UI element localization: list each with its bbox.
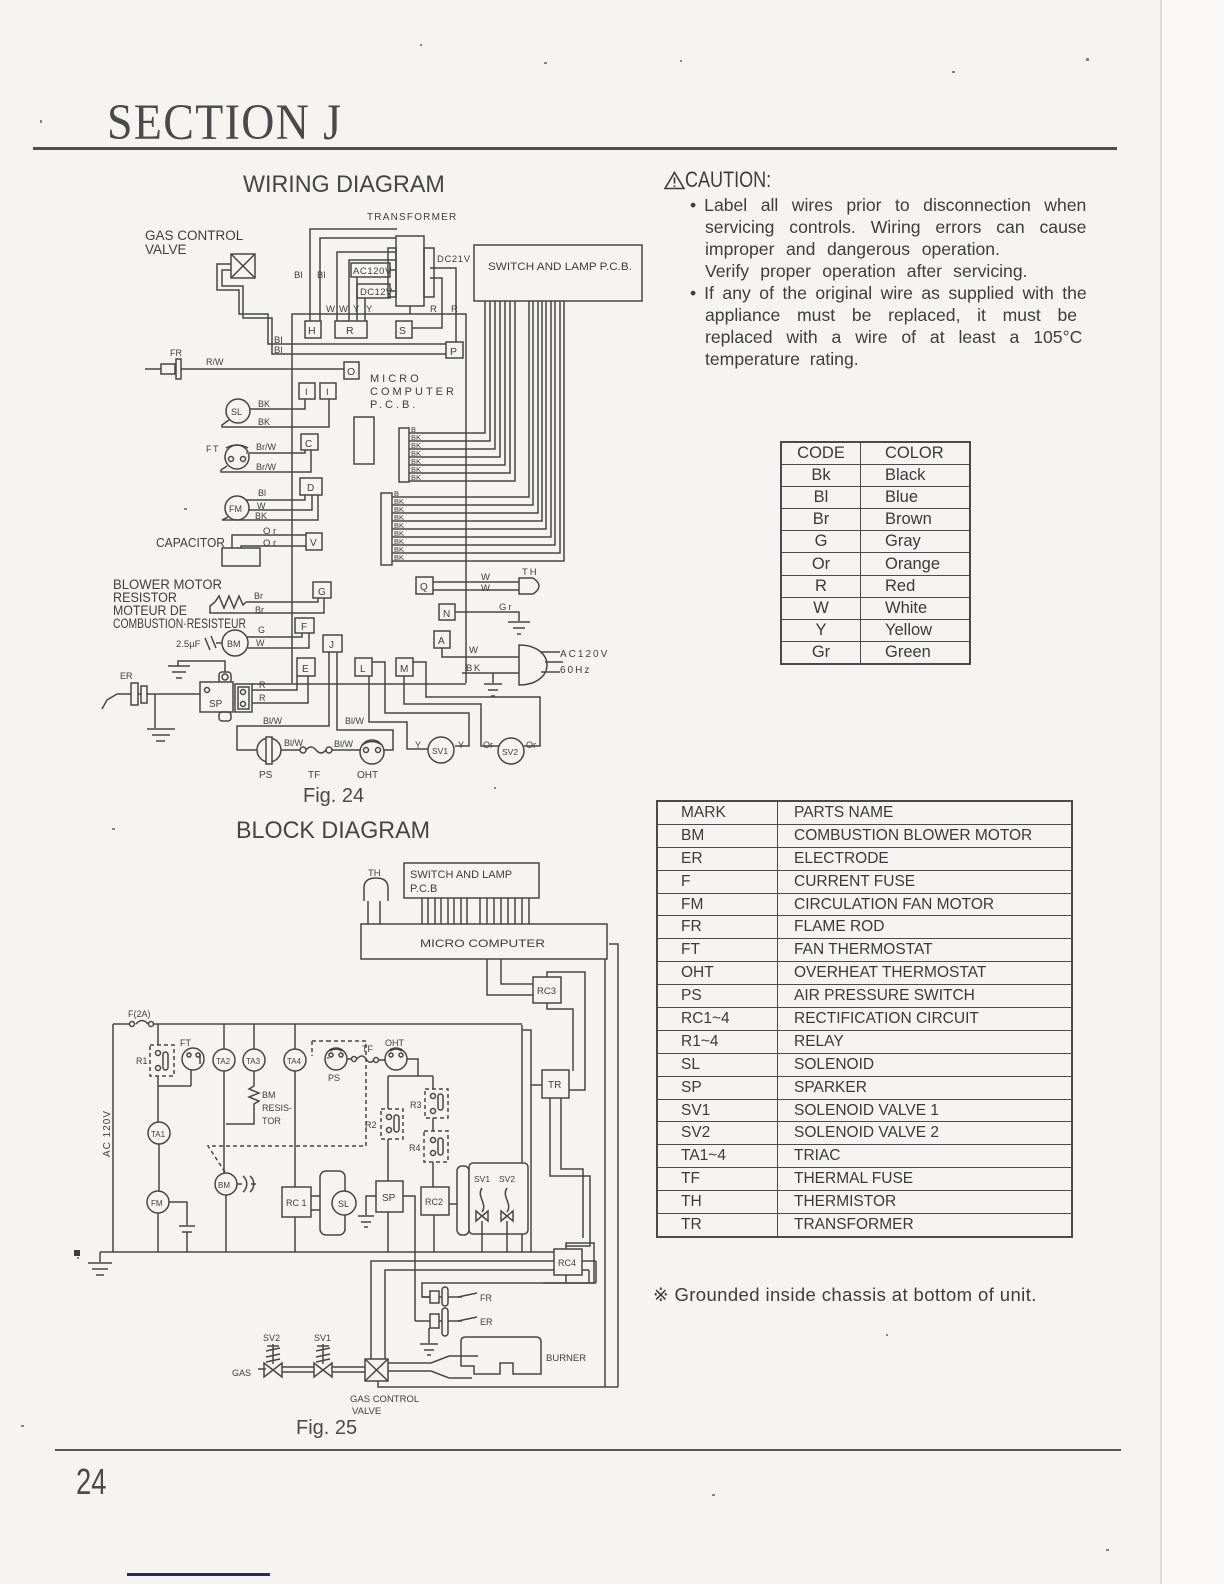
relay R1 xyxy=(136,1024,174,1076)
rectification circuit RC4 xyxy=(554,1249,582,1275)
gas control valve xyxy=(350,1359,419,1417)
overheat thermostat OHT xyxy=(385,1038,407,1070)
connector O xyxy=(344,362,359,379)
svg-text:GAS CONTROL: GAS CONTROL xyxy=(350,1394,419,1405)
wire SV stubs xyxy=(482,1234,507,1252)
svg-text:AC 120V: AC 120V xyxy=(102,1110,113,1157)
ground Gr xyxy=(508,622,530,634)
svg-text:R3: R3 xyxy=(410,1100,422,1110)
svg-text:TA3: TA3 xyxy=(246,1057,261,1066)
wire Y 2 xyxy=(364,298,366,321)
labels Bl W BK xyxy=(255,488,267,521)
wire RC4 bottom xyxy=(543,1275,596,1283)
rail right outer xyxy=(609,944,618,1387)
blower motor resistor label xyxy=(113,577,246,631)
triac TA3 xyxy=(243,1024,265,1071)
svg-text:SV2: SV2 xyxy=(499,1174,515,1184)
wire L to SV1 left xyxy=(369,676,428,749)
wire bundle BK 1 xyxy=(409,301,515,481)
wire Bl primary 1 xyxy=(310,229,397,321)
wire TR to RC4 inner xyxy=(561,1098,583,1238)
fan motor FM xyxy=(225,496,249,520)
svg-text:R2: R2 xyxy=(365,1120,377,1130)
thermal fuse TF xyxy=(281,747,360,781)
wires Q to TH xyxy=(433,582,519,590)
wire Bl pair from valve to P 2 xyxy=(222,270,446,354)
svg-text:R4: R4 xyxy=(409,1143,421,1153)
connector bar BK 1 xyxy=(399,428,409,482)
svg-text:TA2: TA2 xyxy=(216,1057,231,1066)
thermistor TH xyxy=(519,567,539,594)
connector J xyxy=(323,635,342,652)
relay R3 xyxy=(410,1089,448,1118)
fan thermostat FT xyxy=(206,444,249,469)
wire bundle BK 2 xyxy=(392,301,564,561)
relay R4 xyxy=(409,1131,448,1162)
wire SL BK bottom xyxy=(222,399,329,427)
svg-text:FM: FM xyxy=(151,1199,163,1208)
svg-text:BURNER: BURNER xyxy=(546,1353,586,1364)
air pressure switch PS xyxy=(257,737,281,781)
gas pipe xyxy=(232,1367,365,1378)
connector V xyxy=(306,533,322,550)
connector at SP xyxy=(235,684,252,712)
wire RC3 bottom to TR xyxy=(547,1003,573,1071)
connector P xyxy=(446,342,463,358)
labels BrW xyxy=(256,442,277,472)
labels W W Y Y xyxy=(326,304,373,315)
connector D xyxy=(300,478,322,495)
wire BM W xyxy=(248,633,309,648)
sparker SP xyxy=(376,1181,403,1252)
wire R to P xyxy=(430,268,456,342)
resistor blower zigzag xyxy=(215,596,246,608)
wire Bl pair from valve to P 1 xyxy=(217,264,446,344)
wire Or 2 xyxy=(241,546,306,548)
rail right inner xyxy=(604,959,606,1387)
wire FT BrW top xyxy=(249,450,305,453)
svg-text:PS: PS xyxy=(328,1073,340,1083)
svg-text:RC 1: RC 1 xyxy=(286,1198,307,1208)
gas control valve label xyxy=(145,228,244,257)
connector S xyxy=(396,321,412,338)
wire rail left pair 1 xyxy=(521,1025,523,1252)
flame rod FR xyxy=(422,1287,492,1306)
fan thermostat FT xyxy=(180,1038,204,1086)
labels Br Br xyxy=(254,591,264,615)
wire R to E corner xyxy=(252,676,297,690)
labels BlW xyxy=(263,716,365,749)
wire to R2 SP xyxy=(387,1076,389,1181)
labels BK BK xyxy=(258,399,270,427)
wire SP to ER xyxy=(403,1196,415,1321)
wire Bl primary 2 xyxy=(320,238,396,321)
dashed link to BM xyxy=(208,1041,366,1172)
wire micro to RC3 2 xyxy=(501,959,533,984)
sparker SP xyxy=(200,672,233,721)
wire BM G xyxy=(247,633,302,637)
bus line 3 xyxy=(385,1270,589,1359)
labels BK bundle 2 xyxy=(394,489,404,562)
connector C xyxy=(301,434,318,450)
wire N Gr xyxy=(455,612,519,621)
wire M to SV2 right xyxy=(413,662,540,746)
wire Br bottom xyxy=(210,598,324,613)
blower motor BM xyxy=(215,1173,237,1252)
left rail AC120V xyxy=(102,1024,113,1252)
triac TA4 xyxy=(284,1024,306,1187)
overheat thermostat OHT xyxy=(357,740,384,781)
labels R R xyxy=(430,304,458,315)
connector E xyxy=(297,658,315,676)
solenoid valve SV1 gas xyxy=(314,1333,332,1377)
wire bundle PCB to micro xyxy=(422,898,529,924)
bottom rail xyxy=(100,1251,554,1253)
svg-text:TR: TR xyxy=(548,1080,561,1091)
label DC12V xyxy=(357,284,396,298)
fuse FR xyxy=(145,348,344,379)
rectification circuit RC2 xyxy=(421,1187,457,1252)
label AC120V xyxy=(351,263,396,277)
wire R to E stub xyxy=(252,676,308,703)
ground ER xyxy=(147,694,175,741)
connector F xyxy=(295,618,314,633)
wire Y 1 xyxy=(356,277,358,321)
wire TR left xyxy=(531,1084,542,1086)
svg-text:SWITCH AND LAMP: SWITCH AND LAMP xyxy=(410,869,512,881)
wire FM Bl xyxy=(246,495,305,500)
wire RC4 loop to FR xyxy=(422,1243,594,1297)
blower motor BM xyxy=(222,630,248,656)
wire W 1 xyxy=(337,252,396,321)
svg-text:R1: R1 xyxy=(136,1056,148,1066)
solenoid SL assembly xyxy=(311,1171,356,1235)
wire Br top xyxy=(246,598,318,602)
switch and lamp PCB xyxy=(404,863,539,898)
wire OHT branch xyxy=(388,1059,433,1076)
wire R1 FT join xyxy=(158,1076,191,1122)
labels Or Or xyxy=(263,526,276,549)
svg-text:P.C.B: P.C.B xyxy=(410,883,437,895)
svg-text:RC3: RC3 xyxy=(537,986,556,997)
labels BK bundle 1 xyxy=(411,425,421,482)
wire Or 1 xyxy=(232,535,306,548)
svg-text:GAS: GAS xyxy=(232,1368,251,1378)
svg-text:VALVE: VALVE xyxy=(352,1406,381,1417)
wire W 2 xyxy=(349,260,396,321)
labels Y Y Or Or xyxy=(415,740,536,750)
wire TR to RC4 outer xyxy=(550,1098,590,1246)
solenoid valve SV2 xyxy=(498,738,524,764)
connector bar BK 2 xyxy=(381,493,392,565)
venturi xyxy=(388,1356,478,1378)
micro computer xyxy=(361,924,607,959)
ground SP xyxy=(358,1196,376,1227)
label AC120V 60Hz xyxy=(560,649,609,676)
wire FM BK xyxy=(222,495,318,520)
connector N xyxy=(439,604,455,620)
solenoid valves SV1 SV2 block xyxy=(457,1163,528,1235)
top rail with fuse F2A xyxy=(113,1009,522,1027)
plug AC120V xyxy=(519,645,563,685)
triac TA2 xyxy=(213,1024,235,1173)
svg-text:TA1: TA1 xyxy=(151,1130,166,1139)
thermistor TH xyxy=(364,868,388,924)
svg-text:RESIS-: RESIS- xyxy=(262,1103,292,1113)
svg-text:TF: TF xyxy=(362,1044,373,1054)
rectification circuit RC3 xyxy=(533,977,561,1003)
solenoid valve SV2 gas xyxy=(263,1333,282,1377)
rectification circuit RC1 xyxy=(282,1187,311,1252)
capacitor body xyxy=(222,548,260,566)
labels G W xyxy=(256,625,265,648)
wire R3 R4 xyxy=(432,1118,434,1131)
connector A xyxy=(434,631,450,648)
wire RC3 top loop to TR xyxy=(547,972,585,1090)
capacitor FM xyxy=(169,1202,195,1252)
svg-text:SL: SL xyxy=(338,1199,349,1209)
svg-text:SP: SP xyxy=(382,1193,396,1204)
connector H xyxy=(305,321,321,338)
wire SL BK top xyxy=(250,399,305,409)
resistor BM xyxy=(226,1071,292,1126)
bus line 2 xyxy=(371,1261,596,1359)
ground above SP xyxy=(168,661,225,678)
wire J to OHT xyxy=(337,652,393,750)
svg-text:SV1: SV1 xyxy=(474,1174,490,1184)
svg-text:BM: BM xyxy=(262,1090,276,1100)
svg-text:F(2A): F(2A) xyxy=(128,1009,151,1019)
transformer TR xyxy=(542,1070,569,1098)
wire rail left pair 2 xyxy=(522,1030,531,1252)
svg-text:FR: FR xyxy=(480,1293,492,1303)
dashed link PS xyxy=(312,1041,327,1056)
ground BK xyxy=(484,673,502,696)
svg-text:TOR: TOR xyxy=(262,1116,281,1126)
wire micro to RC3 1 xyxy=(487,959,533,995)
electrode ER xyxy=(415,1308,493,1336)
svg-text:MICRO COMPUTER: MICRO COMPUTER xyxy=(420,938,545,950)
solenoid SL xyxy=(226,399,250,423)
svg-text:RC2: RC2 xyxy=(425,1197,443,1207)
wire FT BrW bottom xyxy=(221,450,311,472)
connector L xyxy=(355,658,372,676)
micro computer PCB label xyxy=(370,373,457,411)
thermal fuse TF xyxy=(347,1044,385,1063)
labels W W xyxy=(481,572,490,594)
connector R xyxy=(335,321,367,338)
connector I xyxy=(299,383,315,399)
wire FM W xyxy=(249,495,312,510)
wire long bus to PCB right edge xyxy=(252,683,466,685)
wire bus ends xyxy=(589,1261,596,1283)
wire BK to plug xyxy=(462,672,519,674)
IC on PCB xyxy=(354,417,374,464)
wire valve bottom xyxy=(378,1381,618,1387)
svg-text:ER: ER xyxy=(480,1317,493,1327)
svg-text:SV2: SV2 xyxy=(263,1333,280,1343)
wire to R3 xyxy=(432,1076,434,1089)
wire J to PS xyxy=(237,652,329,750)
electrode ER xyxy=(102,671,200,709)
fan motor FM xyxy=(147,1191,169,1252)
svg-text:RC4: RC4 xyxy=(558,1258,576,1268)
svg-text:FT: FT xyxy=(180,1038,191,1048)
capacitor 2.5uF xyxy=(176,636,222,650)
ground chassis xyxy=(74,1250,112,1275)
switch and lamp PCB xyxy=(474,245,642,301)
connector G xyxy=(313,582,331,598)
relay R2 xyxy=(365,1109,403,1139)
svg-text:BM: BM xyxy=(218,1181,230,1190)
burner xyxy=(461,1337,586,1374)
wire M to SV2 left xyxy=(404,676,499,746)
triac TA1 xyxy=(148,1122,170,1191)
connector Q xyxy=(416,577,433,594)
gas control valve xyxy=(231,254,255,278)
capacitor BM xyxy=(237,1176,256,1192)
labels R R xyxy=(259,680,266,703)
labels Bl Bl xyxy=(274,335,282,356)
wire R to S xyxy=(412,278,442,328)
transformer T body xyxy=(388,236,434,314)
wire A W xyxy=(442,648,519,657)
ground ER xyxy=(420,1328,438,1355)
svg-text:SV1: SV1 xyxy=(314,1333,331,1343)
wire L to SV1 right xyxy=(372,662,469,746)
svg-text:OHT: OHT xyxy=(385,1038,405,1048)
wire R4 RC2 xyxy=(432,1162,434,1187)
svg-text:TA4: TA4 xyxy=(287,1057,302,1066)
connector I xyxy=(320,383,336,399)
air pressure switch PS xyxy=(325,1048,347,1083)
connector M xyxy=(396,658,413,676)
micro computer PCB outline xyxy=(292,314,466,683)
solenoid valve SV1 xyxy=(428,737,454,763)
